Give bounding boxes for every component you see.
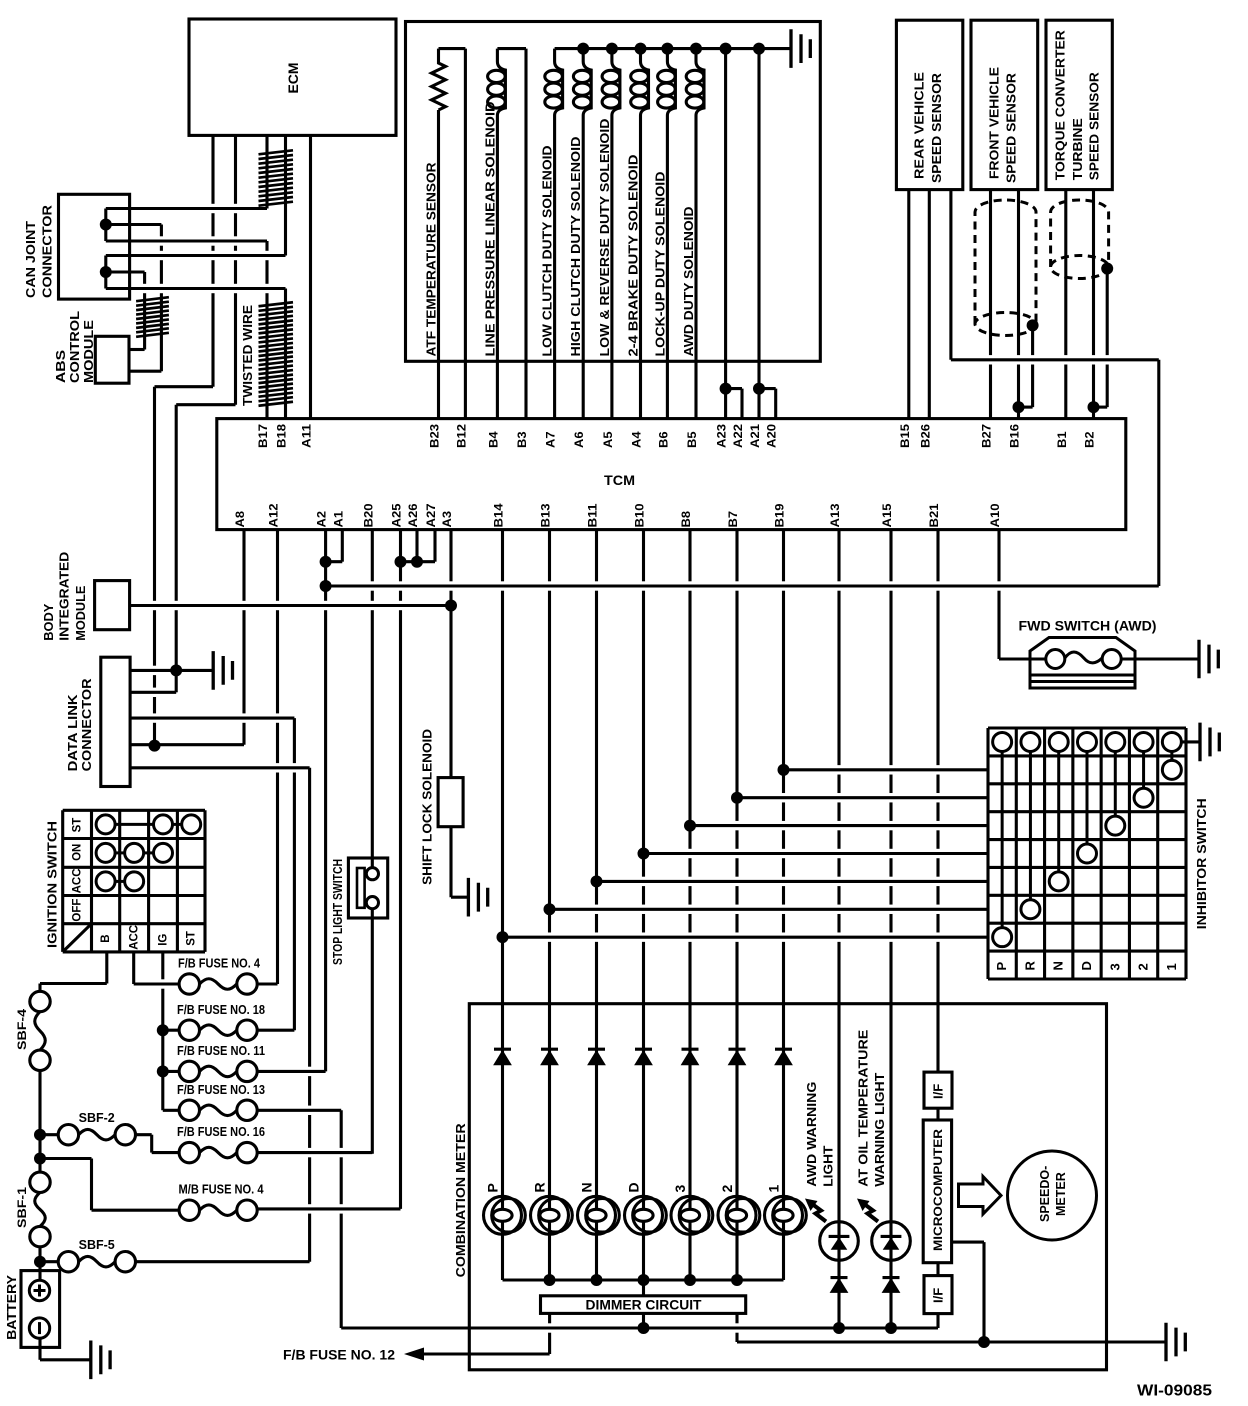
svg-text:LOW CLUTCH DUTY SOLENOID: LOW CLUTCH DUTY SOLENOID [540, 146, 555, 357]
junction: CAN-H junction [100, 219, 112, 231]
wire: wire B19 lamp column [782, 530, 785, 1280]
junction: A3/BIM junction [445, 600, 457, 612]
wire: dimmer center lead [642, 1313, 645, 1328]
lamp 2 [718, 1196, 756, 1234]
svg-text:B7: B7 [728, 511, 740, 528]
svg-text:TURBINE: TURBINE [1070, 118, 1085, 180]
fuse SBF-4 [30, 991, 50, 1011]
svg-text:B21: B21 [929, 503, 941, 528]
diode (AWD lower diode) [831, 1276, 848, 1279]
wire: battery main line seg 3 [38, 1247, 41, 1281]
svg-text:INHIBITOR SWITCH: INHIBITOR SWITCH [1194, 798, 1209, 929]
wire: wire B26 [928, 190, 931, 419]
junction: torque shield junction [1101, 263, 1113, 275]
wire: I/F to microcomputer link [936, 1108, 939, 1120]
ground (shift lock solenoid) [468, 878, 487, 917]
junction: inhibitor branch junction 549.5 [544, 903, 556, 915]
wire: wire A10 FWD switch [997, 530, 1000, 659]
flash arrow (AWD warning light) [805, 1199, 818, 1212]
wire: ECM to TCM A11 wire [309, 135, 312, 418]
wire: I/F to illumination bus link [936, 1314, 939, 1328]
solenoid assembly box [406, 22, 821, 362]
wire: CAN-L tap to ECM [106, 254, 286, 257]
svg-text:M/B FUSE NO. 4: M/B FUSE NO. 4 [179, 1183, 264, 1197]
fuse F/B fuse no.13 [179, 1100, 199, 1120]
svg-text:A26: A26 [408, 504, 420, 528]
wire: F/B fuse 12 feed wire [420, 1352, 550, 1355]
wire: wire A25 ignition power [399, 530, 402, 1209]
wire: FWD switch to ground lead [1121, 657, 1199, 660]
svg-text:WARNING LIGHT: WARNING LIGHT [872, 1073, 887, 1187]
wire: ignition IG riser [161, 952, 164, 1110]
svg-text:CONTROL: CONTROL [67, 311, 82, 383]
junction: solenoid bus junction x=759.0 [753, 43, 765, 55]
diode (diode on wire 1) [775, 1048, 792, 1051]
wire: A22 join link [726, 387, 742, 390]
wire: wire B13 lamp column [548, 530, 551, 1280]
wire: net A2 to shield bus [326, 584, 1159, 587]
wire: lamp common bus [503, 1278, 784, 1281]
svg-text:B14: B14 [494, 503, 506, 528]
junction: inhibitor branch junction 596.5 [591, 875, 603, 887]
wire: CAN-L tap to ABS [106, 270, 145, 273]
wire: M/B fuse in wire [92, 1209, 180, 1212]
front vehicle speed sensor box [971, 20, 1038, 189]
svg-text:SBF-5: SBF-5 [79, 1238, 115, 1252]
svg-text:B18: B18 [277, 423, 289, 448]
junction: B16 shield junction [1013, 401, 1025, 413]
wire: SBF-2 to fuse 16 wire [152, 1151, 179, 1154]
svg-text:ECM: ECM [286, 63, 301, 94]
junction: battery line SBF-2 junction [34, 1129, 46, 1141]
fuse SBF-1 [30, 1172, 50, 1192]
svg-text:F/B FUSE NO. 13: F/B FUSE NO. 13 [177, 1083, 265, 1097]
wire: DLC wire 2 jog [175, 670, 178, 692]
wire: duty solenoid leg B5 [694, 116, 697, 419]
svg-text:A27: A27 [426, 504, 438, 528]
wire: CAN joint bus bar L [104, 256, 107, 289]
wire: wire A3 shift lock [449, 530, 452, 778]
front sensor shield capsule [975, 200, 1036, 324]
battery negative terminal [29, 1318, 49, 1338]
wire: ignition B riser [105, 952, 108, 984]
wire: rear sensor shield wire [949, 190, 952, 360]
wire: front sensor shield drain [1031, 325, 1034, 407]
flash arrow (AT oil temp warning light) [857, 1199, 870, 1212]
svg-text:A12: A12 [269, 504, 281, 528]
junction: solenoid bus junction x=611.9 [606, 43, 618, 55]
junction: lamp bus junction 643.5 [638, 1274, 650, 1286]
junction: front shield junction [1027, 319, 1039, 331]
wire: CAN-L tap to TCM [106, 287, 286, 290]
fuse SBF-5 [58, 1252, 78, 1272]
wire: inhibitor row wire B7 [737, 796, 988, 799]
svg-text:A2: A2 [317, 511, 329, 528]
svg-text:A3: A3 [442, 511, 454, 528]
svg-text:OFF: OFF [72, 899, 84, 922]
I/F box bottom [924, 1276, 952, 1314]
junction: DLC wire4 junction [149, 740, 161, 752]
svg-text:B23: B23 [430, 424, 442, 448]
ground (FWD switch) [1199, 640, 1218, 679]
svg-text:B6: B6 [658, 432, 670, 449]
wire: DLC wire 1 ground [130, 669, 213, 672]
diode (diode on wire 3) [682, 1048, 699, 1051]
svg-text:SBF-2: SBF-2 [79, 1111, 115, 1125]
wire: ATF sensor leg B23 [437, 110, 440, 419]
inhibitor switch contacts [993, 732, 1012, 751]
wire: microcomputer to I/F link [936, 1263, 939, 1276]
fuse F/B fuse no.16 [179, 1142, 199, 1162]
wire: wire B8 lamp column [688, 530, 691, 1280]
wire: BIM to A3 wire [130, 604, 451, 607]
wire: shift lock ground link [451, 896, 468, 899]
wire: SBF-2 to fuse 16 jog [150, 1135, 153, 1153]
ground (combination meter) [1166, 1323, 1185, 1362]
wire: M/B fuse feed jog [90, 1159, 93, 1211]
svg-text:LINE PRESSURE LINEAR SOLENOID: LINE PRESSURE LINEAR SOLENOID [482, 102, 497, 357]
I/F box top [924, 1072, 952, 1108]
svg-text:DATA LINK: DATA LINK [65, 694, 80, 772]
junction: inhibitor branch junction 690.0 [684, 820, 696, 832]
svg-text:MODULE: MODULE [81, 320, 96, 383]
junction: lamp bus junction 737.0 [731, 1274, 743, 1286]
svg-text:2-4 BRAKE DUTY SOLENOID: 2-4 BRAKE DUTY SOLENOID [626, 155, 641, 357]
wire: M/B fuse to A25 wire [257, 1207, 400, 1210]
wire: wire B2 [1092, 190, 1095, 419]
lamp N [578, 1196, 616, 1234]
junction: lamp bus junction 596.5 [591, 1274, 603, 1286]
wire: ATF sensor leg B12 [464, 49, 467, 419]
coil of low & reverse duty solenoid [612, 49, 620, 116]
svg-text:ACC: ACC [72, 868, 84, 893]
svg-text:REAR VEHICLE: REAR VEHICLE [912, 72, 927, 179]
svg-text:METER: METER [1054, 1172, 1068, 1216]
fuse M/B fuse no.4 [179, 1200, 199, 1220]
wire: stop light switch to fuse 16 wire [371, 909, 374, 1154]
svg-text:LOCK-UP DUTY SOLENOID: LOCK-UP DUTY SOLENOID [652, 172, 667, 357]
svg-text:TORQUE CONVERTER: TORQUE CONVERTER [1053, 30, 1068, 181]
wire: DLC wire 5 [130, 766, 310, 769]
junction: IG fuse11 junction [157, 1065, 169, 1077]
FWD switch contacts [1046, 650, 1065, 669]
wire: wire A12 [276, 530, 279, 984]
wire: front shield drain link [1019, 406, 1033, 409]
svg-text:A8: A8 [235, 510, 247, 527]
LED AWD warning light [820, 1222, 859, 1261]
svg-text:ON: ON [72, 844, 84, 861]
svg-text:A4: A4 [632, 431, 644, 448]
wire: solenoid common bus [555, 47, 791, 50]
wire: gateway wire 1 jog [155, 385, 214, 388]
wire: ignition B to SBF-4 wire [40, 982, 107, 985]
wire: wire B10 lamp column [642, 530, 645, 1280]
svg-text:D: D [1079, 961, 1094, 970]
svg-text:N: N [579, 1182, 595, 1192]
wire: DLC wire 4 to A8 [130, 743, 244, 746]
junction: A21/A20 junction [753, 383, 765, 395]
wire: wire B14 lamp column [501, 530, 504, 1280]
wire: ATF sensor top link [439, 47, 466, 50]
svg-text:1: 1 [1164, 963, 1179, 970]
wire: fuse 13 out wire [257, 1109, 341, 1112]
wire: duty solenoid leg B6 [666, 116, 669, 419]
wire: wire A13 AWD warning [837, 530, 840, 1328]
data link connector box [101, 657, 130, 786]
svg-text:LIGHT: LIGHT [820, 1146, 835, 1187]
coil of AWD duty solenoid [696, 49, 704, 116]
wire: inhibitor row wire B8 [690, 824, 988, 827]
wire: ignition ACC riser [132, 952, 135, 984]
lamp 3 [671, 1196, 709, 1234]
ground (data link connector) [213, 651, 232, 690]
junction: inhibitor branch junction 783.5 [778, 764, 790, 776]
fuse SBF-2 [58, 1125, 78, 1145]
wire: wire B7 lamp column [735, 530, 738, 1280]
wire: gateway wire 2 drop [175, 405, 178, 671]
svg-text:B12: B12 [456, 424, 468, 448]
junction: solenoid bus junction x=696.0 [690, 43, 702, 55]
svg-text:LOW & REVERSE DUTY SOLENOID: LOW & REVERSE DUTY SOLENOID [597, 119, 612, 357]
svg-text:IG: IG [158, 934, 170, 946]
wire: wire B16 [1017, 190, 1020, 419]
wire: duty solenoid leg A6 [582, 116, 585, 419]
wire: A25-A27 join link [401, 560, 436, 563]
twisted wire coils (ECM CAN pair) [259, 150, 294, 205]
svg-text:BODY: BODY [41, 603, 56, 640]
svg-text:P: P [994, 962, 1009, 971]
svg-text:AT OIL TEMPERATURE: AT OIL TEMPERATURE [856, 1029, 871, 1186]
wire: CAN-L to TCM B18 [284, 289, 287, 419]
wire: line pressure solenoid leg B3 [524, 49, 527, 419]
ignition switch table [63, 810, 205, 952]
wire: gateway wire 1 drop [153, 387, 156, 746]
wire: wire A21 [757, 49, 760, 419]
junction: solenoid bus junction x=667.4 [661, 43, 673, 55]
wire: wire B20 to stop light switch [371, 530, 374, 868]
wire: CAN-H to TCM B17 [265, 241, 268, 419]
coil of high clutch duty solenoid [583, 49, 591, 116]
ground (inhibitor switch) [1200, 723, 1219, 762]
FWD switch housing [1030, 638, 1135, 689]
svg-text:COMBINATION METER: COMBINATION METER [453, 1123, 468, 1278]
svg-text:MODULE: MODULE [73, 585, 88, 640]
svg-text:SHIFT LOCK SOLENOID: SHIFT LOCK SOLENOID [420, 729, 435, 885]
wire: torque shield drain link [1094, 406, 1108, 409]
TCM box [217, 419, 1126, 530]
wire: CAN-H tap to TCM [106, 239, 267, 242]
junction: inhibitor branch junction 643.5 [638, 848, 650, 860]
lamp P [484, 1196, 522, 1234]
wire: dimmer right lead [735, 1313, 738, 1342]
torque sensor shield capsule [1051, 200, 1109, 267]
svg-text:P: P [485, 1183, 501, 1192]
junction: IG fuse18 junction [157, 1024, 169, 1036]
svg-text:IGNITION SWITCH: IGNITION SWITCH [45, 821, 60, 948]
torque converter turbine speed sensor box [1046, 20, 1112, 189]
wire: DLC wire 2 [130, 691, 176, 694]
wire: wire B11 lamp column [595, 530, 598, 1280]
wire: torque sensor shield drain [1106, 269, 1109, 408]
inhibitor switch grid [988, 728, 1186, 979]
twisted wire coils (TCM CAN pair) [259, 302, 294, 405]
coil of 2-4 brake duty solenoid [641, 49, 649, 116]
wire: ABS CAN-H wire [160, 225, 163, 372]
wire: fuse 16 to stop light wire [257, 1151, 372, 1154]
svg-text:A1: A1 [333, 510, 345, 527]
wire: wire B27 [989, 190, 992, 419]
coil of line pressure linear solenoid [497, 49, 505, 116]
wire: inhibitor common to ground [1181, 740, 1200, 743]
battery positive terminal [29, 1280, 49, 1300]
wire: inhibitor row wire B11 [597, 880, 989, 883]
wire: battery main line seg 1 [38, 984, 41, 992]
wire: wire B15 [907, 190, 910, 419]
F/B fuse no.12 arrow [404, 1348, 424, 1361]
lamp 1 [765, 1196, 803, 1234]
svg-text:D: D [626, 1182, 642, 1192]
junction: solenoid bus junction x=640.5 [635, 43, 647, 55]
svg-text:A6: A6 [574, 432, 586, 449]
battery box [21, 1271, 60, 1348]
junction: dimmer illumination junction [638, 1322, 650, 1334]
wire: inhibitor row wire B19 [784, 768, 989, 771]
junction: A1/A2 junction [320, 556, 332, 568]
svg-text:WI-09085: WI-09085 [1137, 1383, 1212, 1400]
svg-text:SPEED SENSOR: SPEED SENSOR [1086, 72, 1101, 181]
svg-text:HIGH CLUTCH DUTY SOLENOID: HIGH CLUTCH DUTY SOLENOID [568, 137, 583, 357]
svg-text:A22: A22 [733, 424, 745, 448]
svg-text:B10: B10 [635, 504, 647, 528]
svg-text:2: 2 [1136, 963, 1151, 970]
svg-text:A5: A5 [603, 431, 615, 448]
svg-text:3: 3 [672, 1185, 688, 1193]
svg-text:MICROCOMPUTER: MICROCOMPUTER [931, 1129, 945, 1251]
wire: A20 join link [759, 387, 776, 390]
wire: fuse 4 to A12 wire [257, 982, 277, 985]
svg-text:BATTERY: BATTERY [4, 1275, 19, 1340]
svg-text:B2: B2 [1085, 432, 1097, 449]
wire: ECM CAN-L pigtail [284, 135, 287, 255]
svg-text:FRONT VEHICLE: FRONT VEHICLE [986, 67, 1001, 179]
wire: CAN-H tap to ECM [106, 207, 267, 210]
junction: A25/A26 junction [395, 556, 407, 568]
wire: inhibitor row wire B10 [644, 852, 989, 855]
svg-text:N: N [1051, 961, 1066, 970]
svg-text:CONNECTOR: CONNECTOR [79, 678, 94, 772]
dimmer circuit box [541, 1296, 746, 1314]
rear vehicle speed sensor box [896, 20, 962, 189]
svg-text:AWD WARNING: AWD WARNING [804, 1082, 819, 1187]
svg-text:F/B FUSE NO. 16: F/B FUSE NO. 16 [177, 1125, 265, 1139]
junction: inhibitor branch junction 502.5 [497, 931, 509, 943]
wire: IG to fuse 18 tap [163, 1029, 179, 1032]
junction: battery line SBF-5 junction [34, 1256, 46, 1268]
svg-text:ACC: ACC [129, 925, 141, 950]
junction: lamp bus junction 549.5 [544, 1274, 556, 1286]
wire: wire B1 [1064, 190, 1067, 419]
wire: line pressure solenoid top link [497, 47, 526, 50]
svg-text:R: R [1022, 961, 1037, 971]
wire: meter ground bus [737, 1340, 1166, 1343]
svg-text:FWD SWITCH (AWD): FWD SWITCH (AWD) [1019, 619, 1157, 634]
svg-text:ST: ST [72, 818, 84, 833]
fuse F/B fuse no.18 [179, 1020, 199, 1040]
stop light switch plunger [357, 868, 365, 908]
junction: solenoid bus junction x=583.2 [577, 43, 589, 55]
svg-text:CAN JOINT: CAN JOINT [23, 221, 38, 298]
wire: inhibitor row wire B14 [503, 936, 989, 939]
wire: ABS module wire 1 [129, 348, 145, 351]
wire: dimmer top lead [642, 1280, 645, 1296]
wire: SBF-5 out wire [136, 1260, 310, 1263]
combination meter box [469, 1004, 1106, 1370]
junction: lamp bus junction 690.0 [684, 1274, 696, 1286]
svg-text:ABS: ABS [53, 350, 68, 383]
ground (battery) [91, 1341, 110, 1380]
wire: fuse 18 out wire [257, 1029, 294, 1032]
wire: wire A26 stub [415, 530, 418, 562]
svg-text:SBF-1: SBF-1 [15, 1187, 29, 1228]
wire: fuse 18 to DLC riser [293, 718, 296, 1030]
wire: wire A2 backup power [324, 530, 327, 1072]
junction: microcomputer ground-bus junction [978, 1336, 990, 1348]
wire: microcomputer output lead [952, 1241, 984, 1244]
svg-text:A21: A21 [750, 423, 762, 448]
shift lock solenoid body [438, 778, 463, 827]
wire: IG to fuse 11 tap [163, 1070, 179, 1073]
svg-text:SPEEDO-: SPEEDO- [1038, 1166, 1052, 1222]
svg-text:3: 3 [1107, 963, 1122, 970]
svg-text:B5: B5 [687, 431, 699, 448]
wire: ACC to fuse 4 wire [134, 982, 179, 985]
wire: wire A22 stub [740, 389, 743, 419]
junction: B2 shield junction [1088, 401, 1100, 413]
svg-text:B13: B13 [541, 504, 553, 528]
coil of lock-up duty solenoid [667, 49, 675, 116]
svg-text:F/B FUSE NO. 4: F/B FUSE NO. 4 [178, 957, 260, 971]
svg-text:F/B FUSE NO. 12: F/B FUSE NO. 12 [283, 1348, 395, 1363]
svg-text:A13: A13 [830, 504, 842, 528]
svg-text:F/B FUSE NO. 18: F/B FUSE NO. 18 [177, 1003, 265, 1017]
wire: wire A20 stub [774, 389, 777, 419]
diode (diode on wire N) [588, 1048, 605, 1051]
speedometer drive arrow [959, 1177, 1002, 1215]
ECM box U-ECM [189, 19, 396, 135]
wire: wire A15 AT temp warning [889, 530, 892, 1328]
wire: A10 to FWD switch lead [999, 657, 1046, 660]
wire: CAN-H tap to ABS [106, 223, 162, 226]
wire: wire A8 [242, 530, 245, 745]
wire: line pressure solenoid leg B4 [496, 116, 499, 419]
coil of low clutch duty solenoid [555, 49, 563, 116]
junction: solenoid bus junction x=725.6 [720, 43, 732, 55]
svg-text:INTEGRATED: INTEGRATED [56, 552, 71, 641]
svg-text:ST: ST [186, 931, 198, 946]
svg-text:B11: B11 [588, 503, 600, 528]
wire: SBF-5 to DLC riser [308, 768, 311, 1262]
svg-text:TWISTED WIRE: TWISTED WIRE [240, 305, 255, 406]
svg-text:SPEED SENSOR: SPEED SENSOR [1004, 72, 1019, 183]
svg-text:B3: B3 [517, 432, 529, 449]
stop light switch contacts [366, 868, 378, 880]
wire: wire A23 [724, 49, 727, 419]
svg-text:CONNECTOR: CONNECTOR [40, 204, 55, 298]
svg-text:AWD DUTY SOLENOID: AWD DUTY SOLENOID [681, 207, 696, 357]
wire: gateway wire 2 jog [176, 403, 235, 406]
junction: AWD LED bus junction [833, 1322, 845, 1334]
svg-text:DIMMER CIRCUIT: DIMMER CIRCUIT [586, 1297, 702, 1313]
